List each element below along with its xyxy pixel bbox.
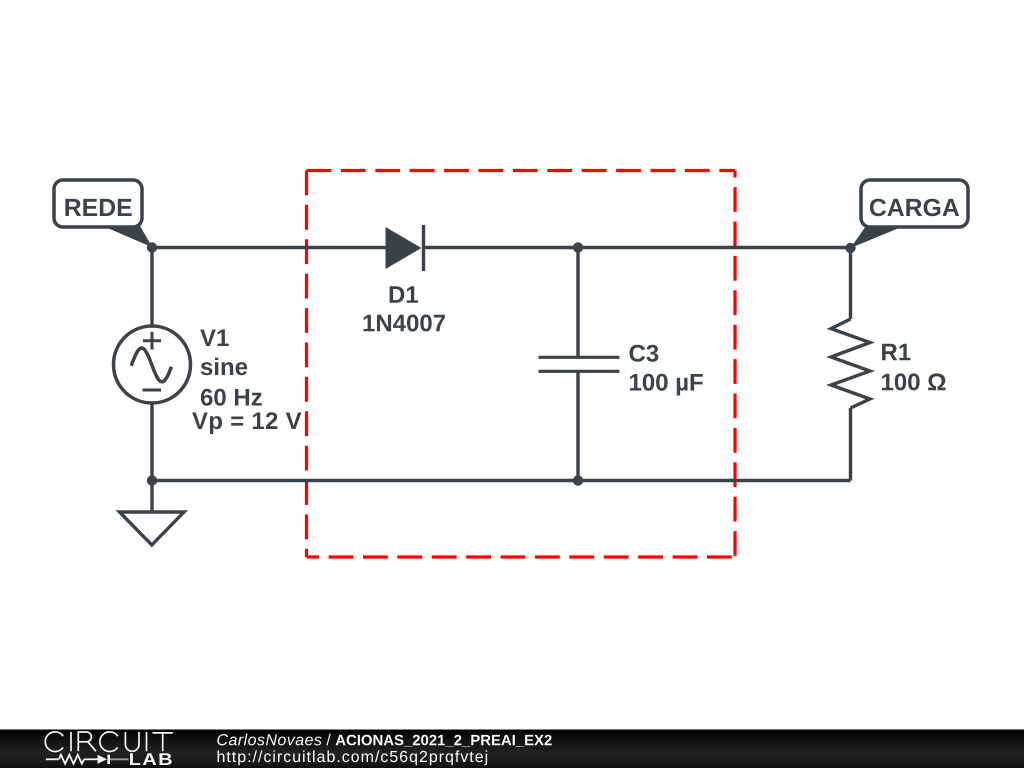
wire top rail left segment — [152, 246, 387, 249]
label sine — [201, 358, 247, 376]
node junction capacitor bottom — [573, 475, 583, 485]
footer url http://circuitlab.com/c56q2prqfvtej — [218, 750, 488, 765]
wire bottom rail — [152, 479, 851, 482]
CircuitLab logo resistor squiggle — [46, 755, 98, 764]
label C3 — [630, 345, 659, 362]
ground — [120, 512, 185, 545]
wire V1 top lead — [150, 248, 153, 328]
diode D1 — [386, 225, 424, 271]
voltage source V1 — [114, 326, 191, 403]
CircuitLab logo diode symbol — [98, 755, 129, 764]
wire R1 top lead — [849, 248, 852, 320]
label Vp = 12 V — [192, 412, 301, 434]
red dashed highlight box — [307, 171, 736, 558]
label R1 — [882, 344, 910, 361]
node junction at REDE — [147, 242, 157, 252]
label 1N4007 — [364, 315, 446, 332]
resistor R1 — [831, 319, 870, 408]
label 60 Hz — [201, 389, 262, 406]
net flag REDE — [54, 180, 153, 248]
wire capacitor C3 bottom lead — [576, 372, 579, 481]
label V1 — [200, 330, 229, 347]
wire ground lead — [150, 481, 153, 513]
node junction capacitor top — [573, 242, 583, 252]
label 100 Ohm — [882, 373, 946, 390]
capacitor C3 — [539, 357, 620, 371]
wire capacitor C3 top lead — [576, 248, 579, 358]
CircuitLab logo CIRCUIT wordmark — [45, 732, 173, 752]
label 100 uF — [630, 374, 703, 396]
CircuitLab logo LAB wordmark — [130, 753, 172, 765]
footer title CarlosNovaes / ACIONAS_2021_2_PREAI_EX2 — [217, 734, 551, 747]
node junction at ground — [147, 475, 157, 485]
net flag CARGA — [851, 180, 969, 248]
node junction at CARGA — [845, 243, 855, 253]
label D1 — [390, 286, 418, 303]
wire top rail right segment — [424, 246, 851, 249]
wire V1 bottom lead — [150, 402, 153, 481]
footer bar — [0, 730, 1024, 768]
wire R1 bottom lead — [849, 408, 852, 481]
